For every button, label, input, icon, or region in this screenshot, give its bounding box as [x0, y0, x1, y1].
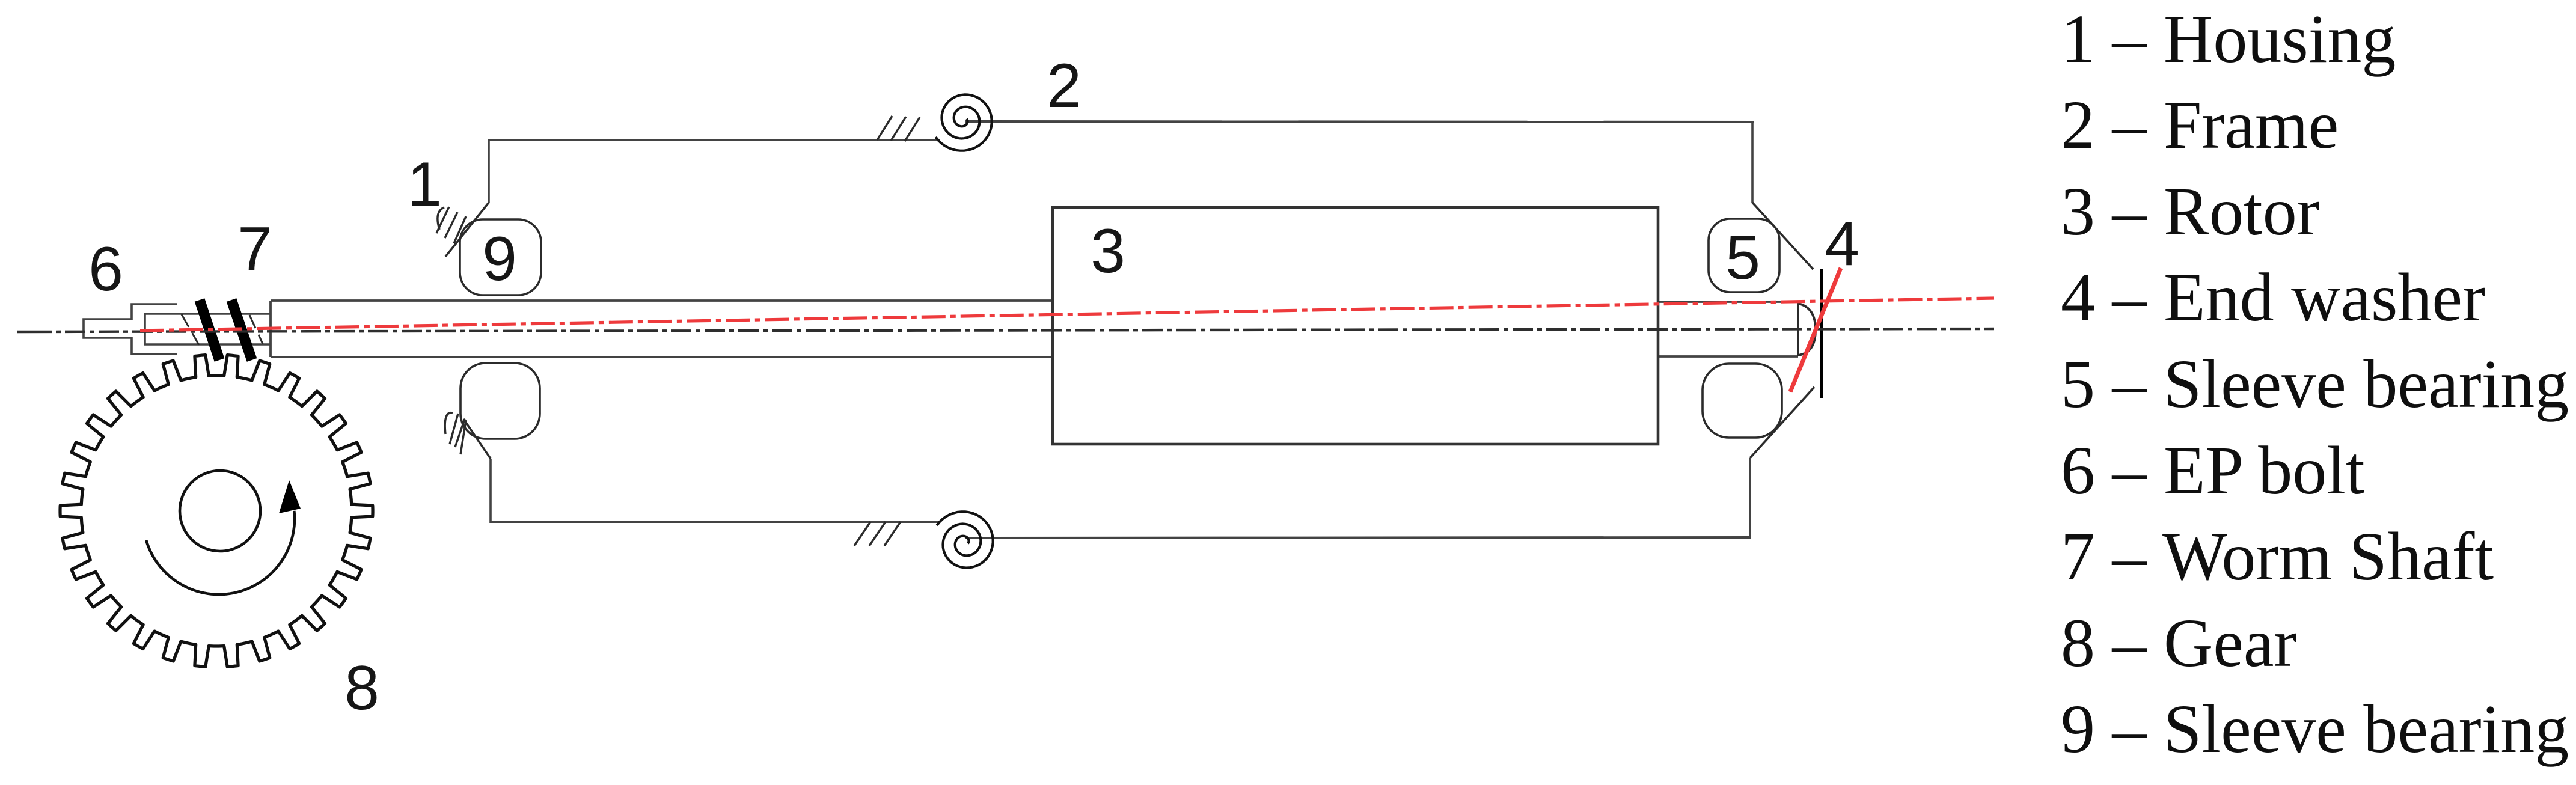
svg-text:7: 7: [237, 215, 272, 284]
EP bolt 6: shank bore: [145, 314, 271, 344]
frame 2: bottom-left vertical: [489, 459, 492, 523]
axis centerline first dash: [17, 331, 52, 333]
svg-text:2: 2: [1047, 51, 1081, 121]
frame 2: top-left diagonal into bearing corner: [445, 203, 489, 257]
svg-text:5 – Sleeve bearing: 5 – Sleeve bearing: [2061, 346, 2569, 422]
svg-text:1: 1: [407, 150, 442, 219]
svg-text:9: 9: [482, 224, 517, 294]
frame 2: top-left vertical: [488, 139, 490, 203]
svg-text:8: 8: [344, 653, 379, 723]
frame 2: bottom line left segment: [491, 521, 940, 523]
svg-text:4 – End washer: 4 – End washer: [2061, 259, 2485, 335]
gear 8: hub circle: [180, 471, 260, 551]
sleeve bearing 5 (upper-right): [1709, 219, 1779, 292]
svg-text:3 – Rotor: 3 – Rotor: [2061, 173, 2320, 249]
svg-text:1 – Housing: 1 – Housing: [2061, 1, 2396, 77]
frame 2: top line left segment: [488, 139, 940, 141]
gear 8: toothed rim: [60, 355, 373, 667]
worm thread section bar B: [231, 300, 252, 360]
frame 2: right vertical lower: [1749, 458, 1751, 539]
frame 2: bottom-left diagonal into bearing corner: [463, 419, 491, 459]
svg-text:6 – EP bolt: 6 – EP bolt: [2061, 432, 2365, 509]
rotor 3: [1053, 207, 1658, 444]
axis centerline (black dash-dot): [52, 329, 1994, 332]
hatching at lower-left bearing: [445, 413, 466, 454]
svg-text:6: 6: [88, 234, 123, 304]
worm thread section bar A: [200, 300, 219, 360]
hatching at top spring: [877, 116, 920, 141]
hatching at upper-left bearing (housing 1 attach): [436, 207, 466, 243]
deflected shaft end (red diagonal): [1790, 268, 1841, 392]
sleeve bearing lower-right block: [1703, 364, 1782, 438]
worm shaft 7: left section outline: [271, 301, 1054, 357]
frame 2: right vertical upper: [1751, 121, 1754, 203]
gear 8: rotation arrowhead: [279, 480, 301, 513]
hatching at bottom spring: [854, 522, 901, 546]
torsion spring symbol on bottom frame line: [937, 512, 993, 567]
gear 8: rotation arrow arc: [146, 511, 295, 594]
svg-text:9 – Sleeve bearing: 9 – Sleeve bearing: [2061, 691, 2569, 767]
svg-text:2 – Frame: 2 – Frame: [2061, 87, 2339, 163]
svg-text:8 – Gear: 8 – Gear: [2061, 605, 2297, 681]
frame 2: bottom-right chamfer: [1750, 387, 1814, 458]
deflected shaft axis (red dash-dot): [140, 298, 1994, 331]
svg-text:7 – Worm Shaft: 7 – Worm Shaft: [2061, 518, 2494, 594]
svg-text:4: 4: [1825, 209, 1859, 279]
frame 2: bottom line right segment: [965, 537, 1751, 538]
worm shaft 7: domed end: [1798, 304, 1816, 355]
sleeve bearing lower-left block: [460, 363, 540, 439]
end washer 4: [1820, 269, 1823, 398]
worm thread root line (right, dashed): [249, 315, 263, 344]
svg-text:5: 5: [1725, 223, 1760, 293]
worm shaft 7: end face: [1797, 302, 1799, 356]
EP bolt 6: outer profile: [84, 304, 177, 354]
torsion spring symbol on top frame line: [935, 94, 991, 150]
frame 2: top line right segment: [965, 121, 1754, 122]
svg-text:3: 3: [1091, 216, 1125, 286]
sleeve bearing 9 (upper-left): [460, 219, 541, 295]
worm shaft 7: right section outline: [1658, 302, 1798, 356]
frame 2: top-right chamfer: [1752, 203, 1813, 269]
worm thread root line (left, dashed): [182, 314, 199, 345]
